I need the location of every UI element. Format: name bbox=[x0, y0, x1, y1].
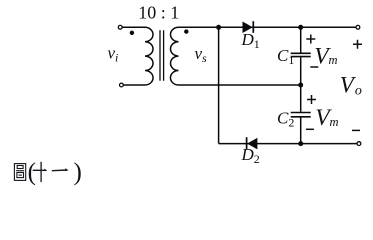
wire primary bottom bbox=[123, 84, 145, 86]
diode D2 bbox=[247, 137, 258, 149]
caption character yi (one) bbox=[52, 169, 68, 172]
wire primary top bbox=[122, 26, 145, 28]
svg-text:vi: vi bbox=[108, 43, 119, 64]
wire bottom rail bbox=[219, 143, 357, 145]
wire capacitor column bbox=[300, 27, 302, 143]
junction node top (D1 anode / vertical wire) bbox=[216, 25, 221, 30]
svg-text:10 : 1: 10 : 1 bbox=[138, 3, 179, 23]
plus sign Vo bbox=[353, 40, 362, 49]
plus sign C1 polarity bbox=[306, 35, 315, 44]
transformer core bbox=[160, 30, 164, 80]
plus sign C2 polarity bbox=[307, 95, 316, 104]
svg-text:(: ( bbox=[28, 159, 36, 186]
wire vertical from top node to bottom rail bbox=[218, 27, 220, 143]
wire top rail bbox=[179, 26, 356, 28]
capacitor C1 plates bbox=[291, 53, 311, 56]
minus sign C2 polarity bbox=[306, 128, 314, 130]
transformer T1 secondary winding bbox=[170, 27, 178, 85]
svg-text:Vm: Vm bbox=[314, 44, 337, 70]
junction node middle rail / C1-C2 bbox=[298, 83, 303, 88]
svg-text:vs: vs bbox=[195, 44, 208, 65]
terminal output minus bbox=[357, 142, 361, 146]
caption character tu (figure) bbox=[14, 164, 25, 181]
minus sign C1 polarity bbox=[310, 66, 318, 68]
terminal vi bottom bbox=[120, 83, 124, 87]
capacitor C2 plates bbox=[291, 113, 311, 117]
transformer secondary phase dot bbox=[184, 29, 188, 33]
wire middle rail bbox=[179, 84, 301, 86]
terminal vi top bbox=[118, 25, 122, 29]
svg-text:C1: C1 bbox=[277, 46, 294, 67]
transformer primary phase dot bbox=[130, 31, 134, 35]
transformer T1 primary winding bbox=[145, 27, 153, 85]
svg-text:D1: D1 bbox=[241, 30, 260, 51]
svg-text:): ) bbox=[74, 159, 82, 186]
junction node C1 top bbox=[298, 25, 303, 30]
junction node C2 bottom bbox=[298, 141, 303, 146]
terminal output plus bbox=[356, 25, 360, 29]
svg-text:Vo: Vo bbox=[340, 73, 362, 99]
caption character shi (ten) bbox=[33, 162, 47, 182]
diode D1 bbox=[243, 21, 254, 33]
svg-text:Vm: Vm bbox=[315, 105, 338, 131]
minus sign Vo bbox=[352, 129, 360, 131]
